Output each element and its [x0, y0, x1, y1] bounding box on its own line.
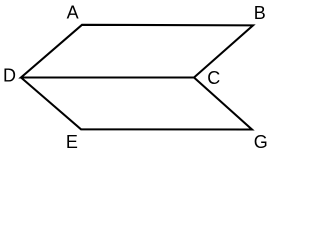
svg-text:A: A — [67, 3, 79, 23]
svg-text:G: G — [254, 132, 268, 152]
svg-text:D: D — [3, 66, 16, 86]
svg-text:E: E — [66, 132, 78, 152]
svg-text:B: B — [254, 3, 266, 23]
svg-text:C: C — [207, 68, 220, 88]
